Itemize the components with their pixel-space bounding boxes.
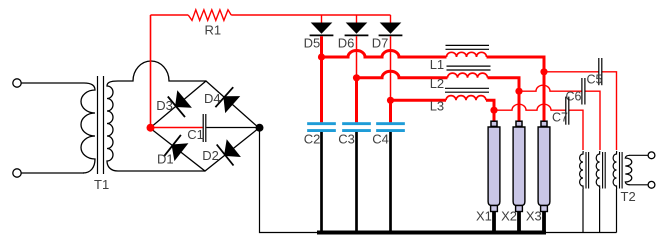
wire input top <box>21 82 84 84</box>
resistor R1 <box>188 10 231 38</box>
node C5 branch junction <box>540 68 547 75</box>
tube X2 <box>501 121 525 232</box>
node C6 branch junction <box>515 88 522 95</box>
wire T2 secondary top lead <box>630 154 649 156</box>
wire T2 winding2 to rail <box>599 189 601 233</box>
svg-text:L2: L2 <box>430 76 444 91</box>
capacitor C1 <box>150 114 259 142</box>
diode D3 <box>156 90 192 117</box>
node bus3-D7 junction <box>387 97 394 104</box>
svg-text:C1: C1 <box>187 127 204 142</box>
capacitor C2 <box>304 122 336 232</box>
svg-text:C3: C3 <box>338 131 355 146</box>
svg-text:C7: C7 <box>552 111 568 125</box>
capacitor C6 <box>566 78 585 105</box>
diode D1 <box>157 135 188 166</box>
node C7 branch junction <box>490 107 497 114</box>
inductor L1 <box>430 45 489 72</box>
tube X3 <box>526 121 550 232</box>
output terminal bottom <box>648 181 655 188</box>
svg-text:C6: C6 <box>566 89 582 103</box>
tube X1 <box>476 121 500 232</box>
wire bus1 with humps over D6 and D7 columns <box>322 51 447 58</box>
bridge rectifier frame <box>150 81 259 171</box>
wire T2 secondary bottom lead <box>630 184 649 186</box>
svg-text:L1: L1 <box>430 57 444 72</box>
wire bus1 right of L1 down to tube X3 <box>487 57 545 121</box>
wire red riser from bridge to R1 <box>150 15 152 128</box>
svg-text:C2: C2 <box>304 131 321 146</box>
svg-text:X3: X3 <box>526 209 542 224</box>
wire T2 winding3 to rail <box>616 189 618 233</box>
wire C5 branch from L1 rail to T2 winding 3 <box>544 72 617 150</box>
wire input bottom <box>21 172 84 174</box>
svg-text:D3: D3 <box>156 98 173 113</box>
wire top feed left of R1 <box>151 14 189 16</box>
wire secondary top with hump over red wire <box>118 61 206 81</box>
output terminal top <box>648 152 655 159</box>
capacitor C4 <box>372 122 405 232</box>
ground rail thin right portion <box>546 232 617 234</box>
capacitor C5 <box>587 58 603 86</box>
input terminal bottom-left <box>13 169 21 177</box>
svg-text:D7: D7 <box>372 35 389 50</box>
diode D2 <box>202 139 241 165</box>
wire bus2 with hump over D7 column <box>357 71 448 78</box>
wire bus3 <box>391 99 447 102</box>
wire C7 branch from L3 rail with humps to T2 winding 1 <box>494 104 583 150</box>
wire column D5 to C2 (thick red) <box>320 36 323 122</box>
svg-text:C5: C5 <box>587 72 603 86</box>
wire from right vertex down and to ground rail <box>260 128 318 233</box>
svg-text:D2: D2 <box>202 148 219 163</box>
inductor L3 <box>430 88 489 113</box>
wire bus2 right of L2 down to tube X2 <box>488 78 520 121</box>
node bus1-D5 junction <box>318 53 325 60</box>
diode D5 <box>304 15 334 50</box>
svg-text:T1: T1 <box>94 177 109 192</box>
node bus2-D6 junction <box>353 74 360 81</box>
node bridge negative (right vertex) <box>256 124 264 132</box>
diode D4 <box>204 87 240 113</box>
wire column D7 to bus3 (thin) then to C4 <box>390 36 392 122</box>
svg-text:C4: C4 <box>372 131 389 146</box>
inductor L2 <box>430 66 491 91</box>
svg-text:X2: X2 <box>501 209 517 224</box>
svg-text:D4: D4 <box>204 91 221 106</box>
wire column D6 to bus2 (thin) then to C3 <box>356 36 358 122</box>
svg-text:X1: X1 <box>476 209 492 224</box>
transformer T1 <box>81 76 118 192</box>
svg-text:L3: L3 <box>430 98 444 113</box>
svg-text:T2: T2 <box>621 189 636 204</box>
wire top feed right of R1 <box>231 14 390 16</box>
capacitor C7 <box>552 97 569 125</box>
svg-text:D6: D6 <box>338 35 355 50</box>
wire secondary bottom <box>118 170 205 172</box>
capacitor C3 <box>338 122 371 232</box>
wire bus3 right of L3 down to tube X1 <box>486 100 494 121</box>
wire T2 winding1 to rail <box>582 189 584 233</box>
transformer T2 <box>580 151 636 204</box>
svg-text:D5: D5 <box>304 35 321 50</box>
wire C6 branch from L2 rail with hump to T2 winding 2 <box>519 85 600 150</box>
diode D7 <box>372 15 403 50</box>
svg-text:R1: R1 <box>205 22 222 37</box>
svg-text:D1: D1 <box>157 151 174 166</box>
input terminal top-left <box>13 79 21 87</box>
node bridge positive (left vertex) <box>147 124 155 132</box>
diode D6 <box>338 15 369 50</box>
ground rail thick <box>317 231 546 235</box>
